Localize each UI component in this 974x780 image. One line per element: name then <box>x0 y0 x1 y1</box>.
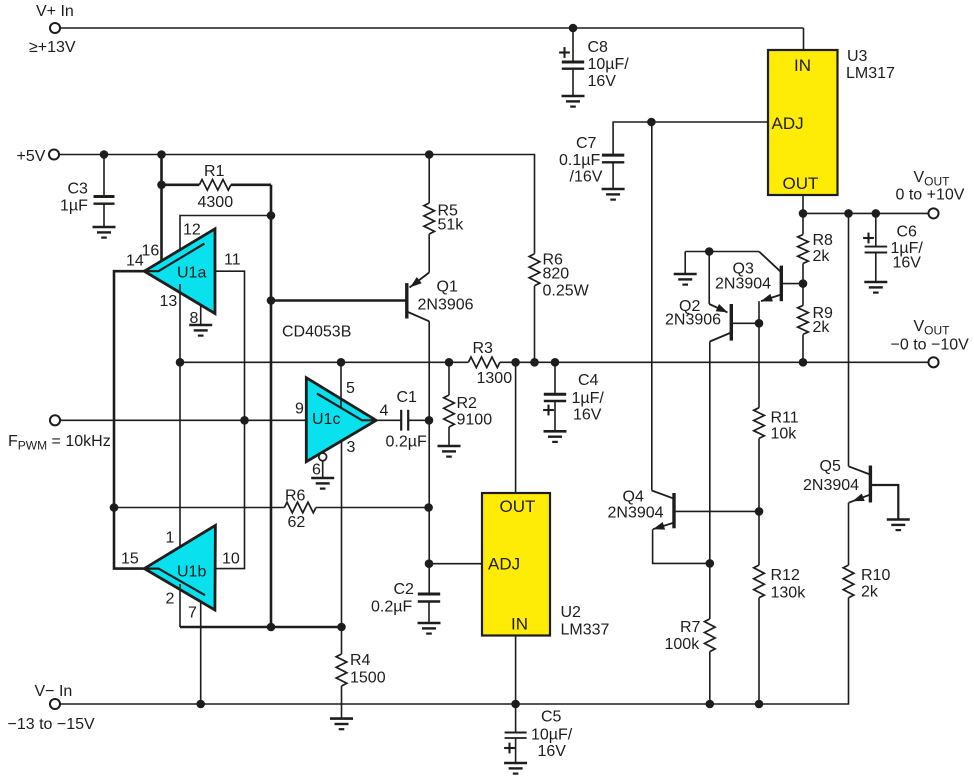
node C3 tap <box>100 150 109 159</box>
svg-text:0 to +10V: 0 to +10V <box>896 187 965 204</box>
wire Q2 emitter drop <box>708 252 710 305</box>
svg-text:0.1µF: 0.1µF <box>559 152 600 169</box>
wire Q4 base <box>674 510 759 512</box>
wire Q1 collector drop <box>428 321 430 594</box>
node R1 rail tap <box>157 150 166 159</box>
pin label 6 <box>312 462 321 479</box>
resistor R11 10k <box>754 408 799 512</box>
wire pin 2 drop <box>179 584 181 627</box>
svg-text:6: 6 <box>312 462 321 479</box>
svg-text:R11: R11 <box>771 410 799 427</box>
svg-text:C8: C8 <box>588 39 609 56</box>
wire U2 ADJ <box>429 563 482 565</box>
svg-text:R4: R4 <box>350 652 371 669</box>
svg-text:LM337: LM337 <box>561 622 610 639</box>
wire pins2-3 bottom bus <box>180 626 342 629</box>
wire pin 12 <box>180 216 271 257</box>
pin label 11 <box>224 252 241 269</box>
svg-text:1300: 1300 <box>477 370 513 387</box>
node R11 / Q4 base <box>755 507 764 516</box>
wire R1 right drop <box>270 185 273 627</box>
svg-text:R1: R1 <box>204 163 225 180</box>
terminal V+ In <box>29 3 76 56</box>
node C8 tap <box>569 24 578 33</box>
svg-text:10µF/: 10µF/ <box>531 727 573 744</box>
wire U3 OUT drop <box>802 195 804 213</box>
node R8/R9 mid <box>799 279 808 288</box>
node R12 rail <box>755 700 764 709</box>
wire +vout rail <box>803 212 929 214</box>
pin label 10 <box>222 551 240 568</box>
wire pin 13 to pin 1 <box>179 284 181 555</box>
svg-text:C5: C5 <box>541 709 562 726</box>
pin label 5 <box>346 380 355 397</box>
wire U2 OUT <box>515 362 517 493</box>
node pin7 rail <box>196 700 205 709</box>
wire FPWM <box>60 419 306 421</box>
node pin12 tee <box>267 211 276 220</box>
wire Q3emitter to R11 <box>758 323 760 407</box>
svg-text:10µF/: 10µF/ <box>588 56 630 73</box>
svg-text:Q1: Q1 <box>437 279 458 296</box>
svg-text:R10: R10 <box>861 567 890 584</box>
resistor R6 820 0.25W <box>529 252 589 363</box>
svg-text:2k: 2k <box>813 248 831 265</box>
pin label 2 <box>166 591 175 608</box>
svg-text:C1: C1 <box>397 389 418 406</box>
svg-text:C2: C2 <box>394 581 415 598</box>
wire pin 14/15 left bus <box>114 271 144 568</box>
resistor R3 1300 <box>468 340 512 387</box>
wire Q1 base <box>271 299 406 302</box>
resistor R5 51k <box>424 155 464 273</box>
wire Q2 base <box>731 322 759 324</box>
svg-text:C3: C3 <box>68 181 89 198</box>
wire pin 11/10 right bus <box>215 271 245 568</box>
svg-text:C6: C6 <box>897 224 918 241</box>
node R2 bus <box>445 358 454 367</box>
node R8 top <box>799 209 808 218</box>
capacitor C3 1uF <box>60 155 115 228</box>
svg-text:OUT: OUT <box>783 174 819 193</box>
wire ADJ long drop <box>651 122 653 491</box>
node C6 tap <box>872 209 881 218</box>
svg-text:R6: R6 <box>285 488 306 505</box>
transistor Q4 2N3904 <box>608 489 675 530</box>
svg-text:IN: IN <box>794 56 811 75</box>
node R9 bus <box>799 358 808 367</box>
ground below pin 8 <box>189 325 212 336</box>
wire pin 7 drop <box>200 602 202 704</box>
svg-text:VOUT: VOUT <box>914 318 951 338</box>
node Q1 base tee <box>267 296 276 305</box>
capacitor C6 1uF/16V <box>863 213 923 282</box>
wire Q4 emitter <box>653 529 710 563</box>
ground below C5 <box>504 763 527 774</box>
svg-text:R12: R12 <box>771 567 800 584</box>
svg-text:2N3904: 2N3904 <box>715 276 771 293</box>
node ADJ junction <box>647 118 656 127</box>
node Q4 emitter / R7 <box>706 559 715 568</box>
pin label 13 <box>160 293 178 310</box>
svg-text:OUT: OUT <box>500 497 536 516</box>
pin label 3 <box>347 439 356 456</box>
svg-text:LM317: LM317 <box>846 65 895 82</box>
svg-text:13: 13 <box>160 293 178 310</box>
resistor R8 2k <box>798 213 833 283</box>
svg-text:0.2µF: 0.2µF <box>386 434 427 451</box>
svg-text:2N3904: 2N3904 <box>608 505 664 522</box>
wire V+ rail <box>60 27 804 29</box>
svg-text:CD4053B: CD4053B <box>282 324 351 341</box>
resistor R12 130k <box>754 511 806 704</box>
terminal V- In <box>8 683 96 733</box>
svg-text:14: 14 <box>126 253 144 270</box>
terminal +5V <box>17 148 60 165</box>
capacitor C4 1uF/16V <box>543 362 604 431</box>
pin label 8 <box>190 310 199 327</box>
op-amp U1b (CD4053 switch b) <box>144 525 215 610</box>
pin label 9 <box>295 401 304 418</box>
pin label 1 <box>166 530 175 547</box>
svg-text:16V: 16V <box>573 407 602 424</box>
transistor Q5 2N3904 <box>803 458 870 503</box>
svg-text:R3: R3 <box>473 340 494 357</box>
svg-text:IN: IN <box>511 615 528 634</box>
svg-text:4: 4 <box>380 403 389 420</box>
svg-text:ADJ: ADJ <box>488 555 520 574</box>
terminal FPWM <box>8 415 111 452</box>
svg-text:R7: R7 <box>680 619 701 636</box>
ground below R2 <box>438 446 461 457</box>
wire pin16 drop <box>160 155 163 262</box>
svg-text:FPWM = 10kHz: FPWM = 10kHz <box>8 433 111 453</box>
svg-text:V− In: V− In <box>35 683 73 700</box>
svg-text:7: 7 <box>188 605 197 622</box>
wire r6-62 bus <box>114 507 429 509</box>
svg-text:15: 15 <box>121 551 139 568</box>
ground below Q5 base <box>887 520 910 531</box>
svg-text:9100: 9100 <box>457 412 493 429</box>
node Q5 collector tap <box>844 209 853 218</box>
wire U3 IN drop <box>803 28 805 50</box>
resistor R4 1500 <box>336 627 385 719</box>
svg-text:16: 16 <box>142 243 160 260</box>
svg-text:51k: 51k <box>438 217 465 234</box>
regulator U3 LM317 <box>768 48 895 195</box>
resistor R7 100k <box>665 563 716 704</box>
svg-text:U1a: U1a <box>177 265 206 282</box>
resistor R10 2k <box>843 565 890 600</box>
svg-text:16V: 16V <box>538 743 567 760</box>
svg-text:C7: C7 <box>576 135 597 152</box>
wire U2 IN <box>515 636 517 705</box>
svg-text:2N3904: 2N3904 <box>803 477 859 494</box>
svg-text:−0 to −10V: −0 to −10V <box>891 337 970 354</box>
wire Q2 collector drop <box>709 342 711 564</box>
node C5 rail <box>511 700 520 709</box>
svg-text:1µF/: 1µF/ <box>572 390 605 407</box>
transistor Q1 2N3906 <box>407 273 474 322</box>
ground below C4 <box>544 431 567 442</box>
op-amp U1a (CD4053 switch a) <box>144 229 215 314</box>
node bottom bus r4 <box>337 623 346 632</box>
transistor Q3 2N3904 <box>715 252 781 302</box>
node pin13 bus <box>176 358 185 367</box>
svg-text:130k: 130k <box>771 585 807 602</box>
node r6 bus right <box>424 503 433 512</box>
capacitor C7 0.1uF/16V <box>559 135 624 189</box>
svg-text:1500: 1500 <box>350 670 386 687</box>
capacitor C1 0.2uF <box>376 389 429 451</box>
node pin5 bus <box>337 358 346 367</box>
regulator U2 LM337 <box>482 493 610 639</box>
ground below C3 <box>93 227 116 238</box>
svg-text:≥+13V: ≥+13V <box>29 39 76 56</box>
svg-text:Q5: Q5 <box>820 458 841 475</box>
svg-text:−13 to −15V: −13 to −15V <box>8 716 96 733</box>
capacitor C8 10uF/16V <box>559 28 629 96</box>
wire Q5 base <box>870 485 898 520</box>
node R7 rail <box>706 700 715 709</box>
svg-text:/16V: /16V <box>570 169 603 186</box>
pin label 12 <box>183 222 201 239</box>
svg-text:820: 820 <box>543 266 570 283</box>
wire V- rail <box>60 598 849 704</box>
transistor Q2 2N3906 <box>665 298 731 342</box>
node R1 branch <box>157 181 166 190</box>
wire pin 8 <box>200 305 202 325</box>
svg-text:+5V: +5V <box>17 148 46 165</box>
label CD4053B <box>282 324 351 341</box>
node pin9 fpwm junction <box>240 416 249 425</box>
svg-text:R2: R2 <box>457 395 478 412</box>
resistor R6 62 <box>284 488 316 532</box>
pin label 16 <box>142 243 160 260</box>
ground below C6 <box>864 282 887 293</box>
op-amp U1c (CD4053 switch c) <box>306 378 376 462</box>
svg-text:2k: 2k <box>813 319 831 336</box>
terminal -VOUT <box>891 318 970 367</box>
wire -vout bus right <box>500 361 929 363</box>
capacitor C5 10uF/16V <box>504 704 573 763</box>
wire Q2 top link <box>685 251 759 253</box>
svg-text:U2: U2 <box>561 604 582 621</box>
svg-text:11: 11 <box>224 252 241 269</box>
pin label 7 <box>188 605 197 622</box>
svg-text:100k: 100k <box>665 636 701 653</box>
svg-text:10: 10 <box>222 551 240 568</box>
svg-text:ADJ: ADJ <box>772 114 804 133</box>
svg-text:0.2µF: 0.2µF <box>371 599 412 616</box>
svg-text:1µF: 1µF <box>60 198 88 215</box>
svg-text:R8: R8 <box>813 232 834 249</box>
svg-text:10k: 10k <box>771 426 798 443</box>
svg-text:0.25W: 0.25W <box>543 283 590 300</box>
capacitor C2 0.2uF <box>371 581 440 623</box>
ground Q2 emitter net <box>674 252 697 285</box>
svg-text:U1c: U1c <box>312 411 340 428</box>
svg-text:2N3906: 2N3906 <box>665 312 721 329</box>
ground below C2 <box>418 623 441 634</box>
wire Q5 collector drop <box>848 213 850 466</box>
svg-text:62: 62 <box>288 514 306 531</box>
svg-text:9: 9 <box>295 401 304 418</box>
pin label 15 <box>121 551 139 568</box>
node bottom bus r1 <box>267 623 276 632</box>
svg-text:3: 3 <box>347 439 356 456</box>
svg-text:12: 12 <box>183 222 201 239</box>
ground below C7 <box>602 189 625 200</box>
terminal +VOUT <box>896 169 965 218</box>
svg-text:2N3906: 2N3906 <box>418 297 474 314</box>
wire +5V rail <box>59 155 535 254</box>
node Q2 base / Q3 emitter <box>755 319 764 328</box>
svg-text:V+ In: V+ In <box>36 3 74 20</box>
wire pin 5 <box>340 362 342 408</box>
wire -vout bus left <box>180 361 468 363</box>
node U2 ADJ junction <box>425 559 434 568</box>
node R5 rail tap <box>425 150 434 159</box>
svg-text:C4: C4 <box>578 372 599 389</box>
svg-text:4300: 4300 <box>198 194 234 211</box>
node R6-820 bus <box>530 358 539 367</box>
resistor R9 2k <box>798 284 833 363</box>
svg-text:2: 2 <box>166 591 175 608</box>
ground below R4 <box>330 719 353 730</box>
wire Q3 emitter drop <box>758 301 760 323</box>
svg-text:16V: 16V <box>893 255 922 272</box>
node r6 bus left <box>110 503 119 512</box>
wire Q3 base <box>781 283 803 285</box>
node C4 bus <box>551 358 560 367</box>
pin label 4 <box>380 403 389 420</box>
wire Q5 emitter drop <box>848 503 850 565</box>
ground below C8 <box>562 96 585 107</box>
svg-text:Q4: Q4 <box>623 489 644 506</box>
ground below pin 6 <box>311 478 334 489</box>
svg-text:1: 1 <box>166 530 175 547</box>
svg-text:16V: 16V <box>588 73 617 90</box>
svg-text:5: 5 <box>346 380 355 397</box>
node C1 junction <box>425 416 434 425</box>
pin 6 bubble <box>319 453 327 478</box>
node Q2 emitter top <box>705 247 714 256</box>
wire pin 3 <box>341 441 343 627</box>
svg-text:U1b: U1b <box>177 564 206 581</box>
resistor R2 9100 <box>444 362 492 446</box>
wire U3 ADJ line <box>613 122 768 155</box>
resistor R1 4300 <box>162 163 272 211</box>
node U2 OUT bus <box>511 358 520 367</box>
pin label 14 <box>126 253 144 270</box>
svg-text:2k: 2k <box>861 584 879 601</box>
svg-text:U3: U3 <box>847 48 868 65</box>
